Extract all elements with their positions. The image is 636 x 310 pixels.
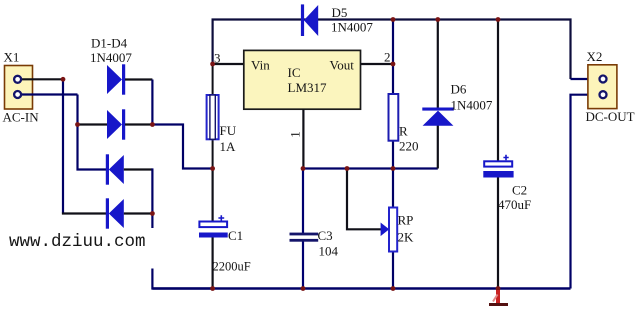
node C2 top (496, 17, 501, 22)
wire - column D3 to D4 (151, 168, 153, 213)
node bridge plus (150, 122, 155, 127)
wire Vout lead to node 2 (361, 63, 394, 65)
svg-text:220: 220 (399, 139, 419, 154)
wire node 2 up to top rail (392, 20, 394, 65)
node adjust R bottom (391, 166, 396, 171)
wire adjust rail (303, 167, 438, 169)
svg-text:470uF: 470uF (498, 197, 531, 212)
wire X2 pin2 lead (587, 94, 600, 96)
node RP bottom (391, 286, 396, 291)
svg-text:2: 2 (384, 50, 391, 65)
wire bottom rail (152, 287, 570, 289)
node bridge minus (150, 211, 155, 216)
wire X2 pin1 lead (571, 78, 600, 80)
wire - column down (below watermark gap) to bottom rail (152, 269, 212, 289)
svg-text:D1-D4: D1-D4 (91, 36, 128, 51)
svg-text:IC: IC (288, 65, 301, 80)
potentiometer RP (347, 169, 397, 289)
svg-text:1N4007: 1N4007 (331, 20, 373, 35)
connector X1 pin 2 circle (14, 91, 21, 98)
svg-text:1N4007: 1N4007 (451, 98, 493, 113)
node C1 bottom (210, 286, 215, 291)
diode D6 (422, 20, 454, 169)
svg-text:AC-IN: AC-IN (3, 110, 40, 125)
diode D3 (106, 154, 124, 184)
svg-text:D6: D6 (451, 82, 467, 97)
node D6 top (435, 17, 440, 22)
svg-text:D5: D5 (332, 5, 348, 20)
connector X2 body (588, 65, 617, 109)
node C2 bottom (496, 286, 501, 291)
wire + node to C1/FU junction (152, 125, 212, 169)
svg-text:1: 1 (287, 131, 302, 138)
wire vertical X1 pin2 down to D2 and D3 rows (78, 95, 107, 170)
wire D3 anode to - column (124, 168, 153, 170)
connector X2 pin 2 circle (600, 91, 607, 98)
wire X1 pin2 lead (20, 93, 78, 95)
svg-text:Vin: Vin (251, 58, 270, 73)
node 3 Vin (210, 62, 215, 67)
diode D5 (301, 4, 318, 36)
node D1 anode (61, 77, 66, 82)
wire into D4 cathode (62, 212, 106, 214)
red ink mark bottom (489, 290, 508, 306)
svg-text:www.dziuu.com: www.dziuu.com (9, 232, 146, 252)
svg-text:1N4007: 1N4007 (90, 50, 132, 65)
diode D1 (107, 64, 125, 94)
svg-text:R: R (399, 124, 408, 139)
wire X1 pin1 lead to node A (20, 78, 63, 80)
svg-text:104: 104 (319, 244, 339, 259)
diode D2 (107, 109, 125, 139)
svg-text:C2: C2 (512, 183, 527, 198)
svg-text:C3: C3 (318, 228, 333, 243)
wire - column down (above watermark gap) (151, 214, 153, 229)
resistor R (389, 64, 399, 169)
node adjust pin1 C3 (301, 166, 306, 171)
capacitor C2 (483, 20, 513, 289)
wire top rail (213, 20, 571, 80)
fuse FU (207, 64, 219, 169)
node FU C1 junction (210, 166, 215, 171)
diode D4 (106, 198, 124, 228)
node adjust wiper (345, 166, 350, 171)
node C3 bottom (301, 286, 306, 291)
svg-text:DC-OUT: DC-OUT (586, 109, 635, 124)
capacitor C3 (290, 169, 319, 289)
wire vertical node A down to D4 row (62, 79, 64, 213)
wire + column vertical (151, 80, 153, 125)
connector X2 pin 1 circle (600, 76, 607, 83)
svg-text:X2: X2 (587, 49, 603, 64)
svg-text:LM317: LM317 (288, 80, 328, 95)
svg-text:C1: C1 (228, 228, 243, 243)
wire pin 1 adjust lead (302, 109, 304, 169)
wire D4 anode to - node (124, 212, 153, 214)
node top rail Vout (391, 17, 396, 22)
svg-text:X1: X1 (4, 50, 20, 65)
svg-text:2K: 2K (398, 230, 415, 245)
wire node 3 lead into Vin (213, 63, 244, 65)
svg-text:FU: FU (220, 123, 237, 138)
node D2 anode (75, 122, 80, 127)
wire D1 cathode to + column (125, 78, 152, 80)
svg-text:Vout: Vout (330, 58, 355, 73)
connector X1 body (5, 66, 33, 110)
wire into D2 anode (78, 123, 108, 125)
connector X1 pin 1 circle (14, 76, 21, 83)
wire X2 pin2 down to bottom rail (571, 95, 587, 289)
capacitor C1 (199, 169, 228, 289)
op-amp regulator IC LM317 box (244, 50, 361, 109)
wire D2 cathode to + node (125, 123, 152, 125)
svg-text:RP: RP (398, 213, 414, 228)
node 2 Vout (391, 62, 396, 67)
svg-text:1A: 1A (220, 139, 237, 154)
svg-text:2200uF: 2200uF (213, 260, 251, 274)
